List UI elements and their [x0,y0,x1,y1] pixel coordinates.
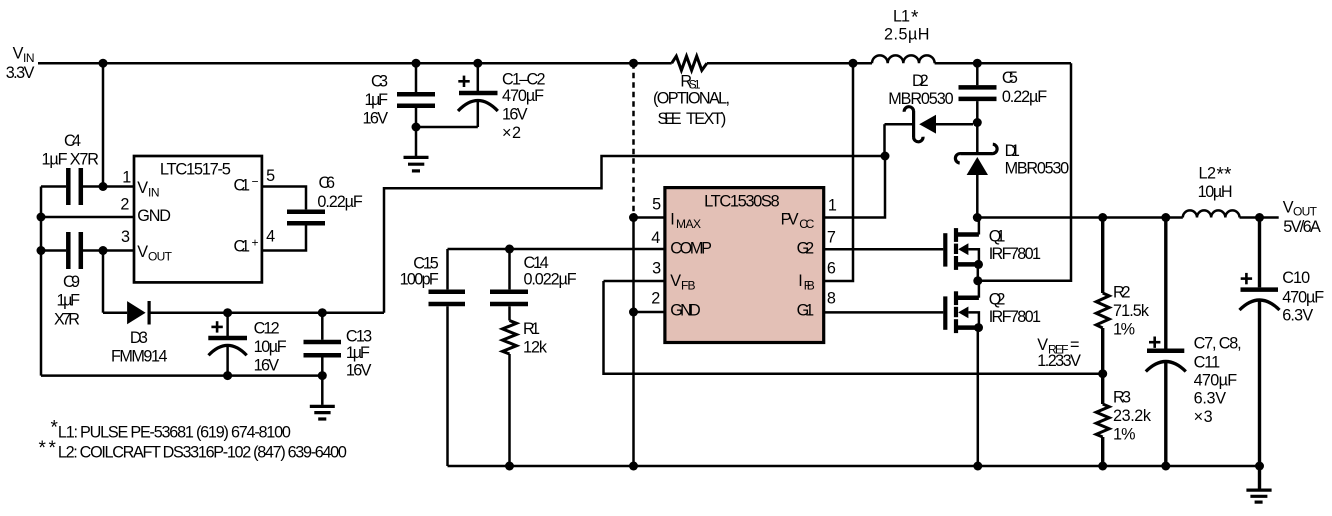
capacitor C12 polarized [208,313,247,376]
wire GND pin 2 [41,216,134,219]
svg-text:C13: C13 [346,327,372,345]
label C6 [317,174,363,211]
inductor L1 [872,55,935,63]
svg-text:16V: 16V [502,106,528,124]
svg-text:2: 2 [651,290,660,308]
svg-text:C11: C11 [1194,354,1221,372]
svg-text:CC: CC [799,217,814,231]
wire dashed IMAX option link [632,63,635,217]
node switch node dot [973,276,982,285]
wire G1 to Q2 gate [824,311,944,314]
svg-text:0.022µF: 0.022µF [524,271,577,289]
node C3/C1C2 bottom junction dot [412,123,421,132]
node pin3 junction dot [99,246,108,255]
svg-text:0.22µF: 0.22µF [317,193,363,211]
svg-text:2.5µH: 2.5µH [884,25,930,43]
transistor Q2 [945,281,983,466]
label C9 [54,273,80,328]
svg-text:OUT: OUT [148,250,173,264]
label VOUT [1283,199,1321,237]
pin 3 name VFB [670,272,695,293]
plus sign C12 [211,321,222,332]
capacitor C6 with pin5/pin4 wires [262,187,325,251]
capacitor C10 polarized [1240,218,1280,467]
wire output rail to L2 [977,216,1183,219]
svg-text:1µF: 1µF [365,91,389,109]
plus sign C1-C2 [458,76,469,87]
svg-text:16V: 16V [254,356,280,374]
wire pin2 GND stub [634,311,665,314]
svg-text:C14: C14 [524,254,549,272]
wire pin3 drop to D3 [102,251,105,313]
svg-text:R1: R1 [523,320,540,338]
svg-text:6.3V: 6.3V [1194,389,1227,407]
svg-text:MBR0530: MBR0530 [1005,160,1070,178]
wire IFB pin stub and riser [824,63,853,281]
wire IMAX/GND vertical [632,218,635,467]
capacitor C5 [959,63,997,122]
label VREF [1037,336,1081,370]
node output rail dots [1098,213,1264,222]
svg-text:MBR0530: MBR0530 [888,90,953,108]
node VIN label [6,44,35,82]
svg-text:2: 2 [120,196,129,214]
svg-text:GND: GND [137,207,171,225]
label C14 [524,254,577,289]
diode D3 [127,301,149,325]
node GND pin dot [629,308,638,317]
svg-text:LTC1517-5: LTC1517-5 [160,160,231,178]
wire R1 bottom lead [508,354,511,466]
svg-text:16V: 16V [363,110,389,128]
svg-text:10µF: 10µF [254,338,287,356]
label L1 [884,8,930,44]
svg-text:C7, C8,: C7, C8, [1194,334,1242,352]
pin 3 name VOUT [137,243,172,264]
svg-text:(OPTIONAL,: (OPTIONAL, [653,90,730,108]
svg-text:5V/6A: 5V/6A [1283,218,1321,236]
svg-text:1µF: 1µF [346,344,370,362]
svg-text:1%: 1% [1113,425,1136,443]
svg-text:V: V [137,179,148,197]
svg-text:470µF: 470µF [1282,288,1324,306]
svg-text:GND: GND [670,301,700,319]
svg-text:8: 8 [827,290,836,308]
plus sign C10 [1241,273,1252,284]
node C14 top dot [505,245,514,254]
svg-text:1%: 1% [1113,320,1135,338]
svg-text:IN: IN [23,51,35,65]
plus sign C7 [1149,337,1160,348]
ground bottom right [1246,466,1271,502]
svg-text:6.3V: 6.3V [1282,306,1313,324]
label R3 [1113,389,1152,444]
svg-text:C12: C12 [254,320,280,338]
svg-text:R2: R2 [1113,283,1131,301]
svg-text:V: V [13,44,24,62]
pin 4 name C1+ [234,236,259,256]
inductor L2 [1183,210,1240,217]
svg-text:LTC1530S8: LTC1530S8 [704,192,780,210]
label footnote L2 [39,438,347,461]
svg-text:5: 5 [652,196,661,214]
wire VIN top rail left segment [38,62,672,65]
wire VFB drop and feedback run [604,281,1103,374]
svg-text:×3: ×3 [1194,408,1213,426]
wire COMP line [448,248,665,251]
svg-text:D2: D2 [912,72,929,90]
node junction dots on top rail [99,59,982,68]
label C12 [254,320,287,375]
node feedback dot at divider [1098,369,1107,378]
svg-text:C6: C6 [319,174,336,192]
wire VIN top rail right segment [935,62,1071,65]
svg-text:Q1: Q1 [989,228,1006,246]
node IMAX dot [629,213,638,222]
capacitor C4 [41,168,134,205]
wire D3 anode segment [103,311,127,314]
pin 1 name PVCC [781,210,815,231]
node output rail top dot [973,213,982,222]
label R1 [523,320,548,356]
label R2 [1113,283,1150,338]
node C13 bottom dot [318,371,327,380]
svg-text:3.3V: 3.3V [6,64,35,82]
pin 5 name C1- [234,175,259,195]
svg-text:C1–C2: C1–C2 [502,71,546,89]
pin 5 name IMAX [670,210,701,231]
label C4 [42,132,100,169]
IC U2 LTC1530S8 [665,188,824,343]
resistor R1 [503,321,517,355]
node gnd-rail dot [37,213,46,222]
capacitor C3 [397,63,435,156]
svg-text:G1: G1 [797,301,815,319]
svg-text:I: I [670,210,675,228]
svg-text:L2: L2 [1199,164,1217,182]
svg-text:*: * [39,438,47,459]
label C15 [400,255,439,289]
diode D1 schottky [955,123,997,218]
wire L1 output drop to switch node [978,63,1071,281]
svg-text:V: V [670,272,681,290]
label D2 [888,72,953,108]
capacitor C13 [304,313,342,376]
svg-text:D3: D3 [130,329,148,347]
svg-text:4: 4 [266,228,275,246]
svg-text:C5: C5 [1002,69,1018,87]
svg-text:*: * [49,438,57,459]
svg-text:V: V [137,243,148,261]
svg-text:1µF: 1µF [57,292,81,310]
node C5/D2/D1 junction dot [973,118,982,127]
wire PVcc feed from C12/C13 node up and across [384,156,885,313]
svg-text:71.5k: 71.5k [1113,302,1150,320]
node C9 rail dot [37,246,46,255]
wire L2 to VOUT [1240,216,1279,219]
svg-text:I: I [798,272,803,290]
svg-text:3: 3 [121,228,130,246]
capacitor C14 [490,249,528,321]
label C3 [363,73,389,128]
wire G2 to Q1 gate [824,248,944,251]
ground below C3 [404,157,429,171]
wire PVcc pin stub and riser [824,156,885,218]
svg-text:6: 6 [827,260,836,278]
label C7 C8 C11 [1194,334,1242,426]
node rail dots [505,462,1264,471]
svg-text:100pF: 100pF [400,271,439,289]
svg-text:L1: L1 [893,8,910,26]
wire D3 cathode to PVcc feed [149,311,384,314]
svg-text:C10: C10 [1282,269,1310,287]
svg-text:D1: D1 [1005,142,1020,160]
svg-text:470µF: 470µF [502,87,544,105]
pin 6 name IFB [798,272,815,293]
label C10 [1282,269,1324,324]
svg-text:IN: IN [148,186,160,200]
label RS1 [653,72,730,128]
resistor R2 with leads [1096,218,1109,374]
label D1 [1005,142,1070,177]
resistor RS1 [672,56,707,70]
wire VIN drop to pin 1 [102,63,105,186]
capacitor C9 [41,232,134,269]
svg-text:−: − [252,175,259,189]
wire pin5 IMAX stub [634,216,665,219]
svg-text:L1: PULSE PE-53681 (619) 674-: L1: PULSE PE-53681 (619) 674-8100 [58,423,291,441]
label C1-C2 [502,71,546,143]
svg-text:0.22µF: 0.22µF [1002,88,1047,106]
svg-text:12k: 12k [523,338,548,356]
svg-text:10µH: 10µH [1198,183,1233,201]
svg-text:7: 7 [827,228,836,246]
wire bottom ground rail [448,465,1260,468]
node C13 top dot [318,308,327,317]
capacitor C15 [429,249,466,466]
svg-text:16V: 16V [346,361,372,379]
pin 1 name VIN [137,179,159,200]
resistor R3 with leads [1096,374,1109,466]
svg-text:MAX: MAX [676,217,701,231]
IC U1 LTC1517-5 [134,156,262,282]
svg-text:PV: PV [781,210,799,228]
wire VIN top rail mid segment [707,62,872,65]
label C13 [346,327,372,379]
svg-text:1.233V: 1.233V [1037,352,1081,370]
node PVcc junction dot [881,152,890,161]
node pin1 junction dot [99,182,108,191]
svg-text:5: 5 [266,167,275,185]
svg-text:IRF7801: IRF7801 [989,245,1041,263]
svg-text:COMP: COMP [670,239,712,257]
svg-text:×2: ×2 [502,124,521,142]
svg-text:FMM914: FMM914 [111,348,168,366]
label C5 [1002,69,1047,106]
svg-text:SEE: SEE [658,110,682,128]
svg-text:FB: FB [804,278,815,292]
wire left rail [40,187,43,376]
svg-text:+: + [252,236,259,250]
svg-text:3: 3 [652,260,661,278]
svg-text:Q2: Q2 [989,291,1006,309]
svg-text:G2: G2 [797,239,815,257]
svg-text:C4: C4 [64,132,81,150]
svg-text:L2: COILCRAFT DS3316P-102 (84: L2: COILCRAFT DS3316P-102 (847) 639-6400 [58,443,347,461]
capacitor C7/C8/C11 polarized [1146,218,1186,467]
node C12 top dot [223,308,232,317]
wire pin3 VFB stub [604,280,665,283]
svg-text:4: 4 [651,229,660,247]
svg-text:1: 1 [828,196,837,214]
svg-text:C9: C9 [63,273,80,291]
svg-text:C3: C3 [371,73,388,91]
svg-text:C1: C1 [234,238,251,256]
svg-text:TEXT): TEXT) [686,110,726,128]
svg-text:23.2k: 23.2k [1113,407,1152,425]
label Q1 [989,228,1041,264]
node C12 bottom dot [223,371,232,380]
capacitor C1-C2 polarized [416,63,498,127]
diode D2 schottky [885,107,974,156]
label footnote L1 [51,418,291,442]
svg-text:1: 1 [122,169,131,187]
svg-text:C1: C1 [234,177,251,195]
svg-text:FB: FB [681,278,696,292]
ground below C13 [310,376,335,419]
svg-text:OUT: OUT [1293,204,1318,218]
transistor Q1 [945,218,983,281]
svg-text:470µF: 470µF [1194,372,1238,390]
svg-text:R3: R3 [1113,389,1131,407]
wire left block bottom [41,374,322,377]
label L2 [1198,164,1233,201]
svg-text:X7R: X7R [54,310,80,328]
svg-text:IRF7801: IRF7801 [989,308,1041,326]
svg-text:1µF X7R: 1µF X7R [42,150,100,168]
label D3 [111,329,168,365]
label Q2 [989,291,1041,327]
